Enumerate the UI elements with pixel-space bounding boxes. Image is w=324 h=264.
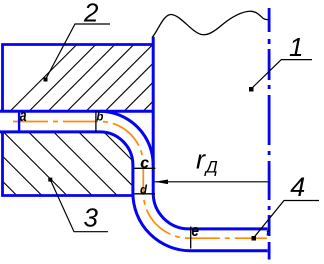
svg-text:b: b [96, 112, 103, 124]
svg-text:e: e [191, 222, 199, 241]
tick c [134, 167, 155, 169]
tube top/outer wall: straight edge with break stub [153, 37, 267, 229]
axis line 1 (vertical dash-dot) [268, 8, 271, 260]
block 3 (die) outline [3, 133, 133, 196]
svg-text:1: 1 [289, 32, 303, 62]
leader 1 [251, 60, 312, 89]
leader 3 [50, 180, 108, 232]
svg-text:3: 3 [84, 203, 99, 233]
tube centerline (orange dash-dot) [13, 122, 267, 239]
tube outer bend arc (bend 1) [100, 111, 153, 165]
block 2 (clamp) outline [3, 45, 154, 112]
svg-text:c: c [140, 155, 149, 172]
point labels [20, 107, 270, 240]
svg-text:Д: Д [204, 158, 218, 177]
tube inner wall path [0, 132, 268, 251]
break line (wavy) [152, 11, 269, 37]
svg-text:d: d [140, 184, 148, 196]
hatching block 2 [0, 0, 292, 131]
leader 4 [254, 201, 320, 239]
svg-text:2: 2 [83, 0, 99, 28]
svg-text:r: r [196, 144, 206, 174]
tick a (blue) [18, 112, 20, 133]
leader 2 [46, 24, 111, 80]
tube wall: horizontal top wall / block2 bottom edge [0, 110, 153, 113]
dimension r_d line with arrow [155, 181, 270, 183]
svg-text:4: 4 [290, 172, 305, 202]
tick d [135, 193, 156, 195]
hatching block 3 [0, 120, 197, 200]
tick b [95, 110, 97, 132]
tick e [190, 227, 192, 249]
svg-text:a: a [20, 107, 27, 125]
